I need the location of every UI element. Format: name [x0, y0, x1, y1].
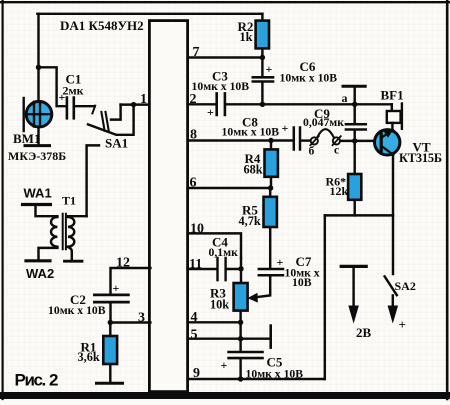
wire c to transistor base [340, 140, 380, 142]
svg-text:+: + [207, 105, 214, 119]
wire WA1 to T1 [36, 206, 58, 216]
right vertical rail [324, 215, 326, 379]
capacitor C8 plates [294, 128, 300, 150]
op-amp IC DA1 body [149, 21, 187, 392]
junction pin5 [238, 336, 243, 341]
capacitor C5 plates [229, 352, 263, 358]
svg-text:3: 3 [138, 311, 145, 326]
junction C4 R3 [238, 266, 243, 271]
wire T1 right winding top [68, 215, 87, 217]
connector socket b [311, 137, 318, 144]
wire pin 12 row [111, 268, 151, 293]
transistor VT body [375, 130, 400, 155]
pin 5 terminal bar [269, 326, 272, 348]
svg-text:WA2: WA2 [26, 266, 54, 281]
junction C2 R1 [108, 320, 113, 325]
svg-text:12k: 12k [330, 184, 349, 198]
resistor R1 leads [109, 323, 111, 382]
capacitor C2 plates [94, 295, 128, 302]
svg-text:8: 8 [190, 128, 197, 143]
junction C5 pin9 [238, 376, 243, 381]
BM1 bottom terminal bar [25, 144, 50, 147]
svg-text:10мк x 10В: 10мк x 10В [48, 304, 106, 317]
jumper arc b to c [318, 129, 334, 136]
wire 2B stem [352, 268, 354, 307]
resistor R6 body [348, 174, 361, 200]
capacitor C3 plates [217, 93, 225, 115]
capacitor C4 plates [218, 258, 226, 280]
junction R2 bottom [260, 55, 265, 60]
svg-text:2В: 2В [356, 325, 372, 340]
svg-text:SA2: SA2 [395, 279, 416, 293]
SA2 arrowhead [388, 306, 397, 322]
transformer T1 core lines [63, 214, 66, 250]
transistor VT collector arrowhead [385, 130, 393, 137]
svg-text:2мк: 2мк [63, 84, 84, 98]
svg-text:10мк x 10В: 10мк x 10В [192, 80, 250, 93]
antenna WA1 bar [23, 203, 51, 206]
wire C5 bottom lead [239, 359, 241, 379]
microphone BM1 body [26, 101, 52, 127]
resistor R5 leads [269, 188, 271, 268]
wire pin 5 row [188, 337, 271, 339]
frame left border [1, 1, 3, 399]
svg-text:+: + [113, 281, 120, 295]
svg-text:б: б [309, 145, 315, 158]
connector slash b [310, 136, 318, 145]
svg-text:5: 5 [191, 328, 198, 343]
headphone BF1 box [387, 111, 401, 123]
svg-text:6: 6 [190, 176, 197, 191]
wire C7 bottom to wiper [256, 277, 271, 298]
capacitor C7 plates [259, 269, 283, 275]
wire BM1 bottom lead [37, 127, 39, 144]
svg-text:T1: T1 [62, 194, 76, 208]
capacitor C1 plates [67, 98, 74, 119]
wire SA2 stem [392, 295, 394, 307]
junction C6 bottom [260, 102, 265, 107]
antenna WA2 bar [26, 259, 50, 262]
R1 bottom terminal bar [97, 382, 123, 385]
svg-text:+: + [221, 358, 228, 372]
wire pin 9 row [188, 378, 325, 380]
svg-text:+: + [277, 255, 284, 269]
svg-text:КТ315Б: КТ315Б [399, 151, 442, 165]
wire R6 bottom lead [353, 200, 355, 216]
switch SA1 lever [88, 105, 134, 135]
svg-text:МКЭ-378Б: МКЭ-378Б [8, 149, 66, 163]
svg-text:2: 2 [49, 370, 58, 389]
svg-text:12: 12 [116, 256, 130, 271]
wire pin 3 row [110, 321, 150, 323]
resistor R2 leads [261, 48, 263, 76]
wire pin 6 row [188, 187, 271, 189]
svg-text:+: + [399, 317, 406, 332]
svg-text:10В: 10В [292, 276, 312, 289]
resistor R5 body [264, 197, 277, 227]
svg-text:Рис.: Рис. [15, 370, 46, 389]
transformer T1 left winding [51, 217, 57, 247]
svg-text:3,6k: 3,6k [78, 350, 100, 364]
svg-text:SA1: SA1 [105, 136, 128, 151]
wire pin 11 [188, 268, 217, 270]
wire C8 to connector [301, 139, 310, 141]
wire emitter row to right rail [325, 214, 393, 216]
junction top-left [36, 65, 41, 70]
junction R4 R5 [268, 185, 273, 190]
microphone BM1 inner horizontal line [27, 113, 52, 115]
R3 wiper arrowhead [249, 294, 258, 302]
transformer T1 right winding [68, 217, 74, 247]
svg-text:+: + [59, 90, 66, 104]
wire C4 to junction [227, 258, 241, 283]
junction SA1 pin1 [131, 102, 136, 107]
wire SA1 pole to T1 [87, 145, 99, 216]
wire BF1 to collector [391, 123, 393, 130]
svg-text:10мк x 10В: 10мк x 10В [222, 126, 280, 139]
wire C2 bottom lead [109, 303, 111, 322]
svg-text:DA1 К548УН2: DA1 К548УН2 [60, 18, 144, 33]
wire emitter down to SA2 [392, 155, 394, 275]
2B arrowhead [349, 306, 358, 322]
svg-text:WA1: WA1 [24, 186, 52, 201]
resistor R4 leads [270, 141, 272, 189]
T1 right bottom terminal bar [65, 260, 83, 263]
svg-text:9: 9 [193, 366, 200, 381]
svg-text:+: + [266, 62, 273, 76]
junction R3 pin4 [238, 320, 243, 325]
svg-text:7: 7 [193, 45, 200, 60]
wire pin 8 row [188, 139, 293, 141]
switch SA1 blade lines [101, 112, 108, 131]
wire T1 left winding bottom to WA2 [39, 248, 58, 260]
svg-text:68k: 68k [244, 163, 263, 177]
wire T1 right winding bottom lead [68, 247, 72, 260]
wire C1 to SA1 [75, 105, 94, 107]
switch SA1 upper contact hook [111, 105, 121, 120]
junction node a rail [352, 102, 357, 107]
svg-text:0,047мк: 0,047мк [303, 116, 344, 129]
svg-text:4,7k: 4,7k [239, 214, 261, 228]
svg-text:11: 11 [189, 257, 202, 272]
wire R6 top lead [353, 141, 355, 174]
wire R3 bottom lead [239, 311, 241, 351]
resistor R2 body [256, 21, 269, 49]
frame right border [446, 1, 449, 399]
svg-text:0,1мк: 0,1мк [209, 246, 239, 259]
wire C6 bottom lead [261, 83, 263, 105]
svg-text:1: 1 [140, 92, 147, 107]
wire top-left branch to C1 [39, 67, 65, 106]
frame bottom border [1, 392, 449, 399]
SA1 contact tick [92, 106, 95, 114]
node a terminal bar [343, 85, 365, 88]
svg-text:2: 2 [190, 92, 197, 107]
svg-text:10k: 10k [210, 298, 229, 312]
svg-text:+: + [282, 121, 289, 135]
wire pin 4 row [188, 321, 241, 323]
connector slash c [333, 136, 341, 145]
wire top rail horizontal [37, 13, 262, 15]
wire pin 2 rail [188, 103, 392, 105]
connector socket c [333, 137, 340, 144]
svg-text:1k: 1k [240, 30, 253, 44]
resistor R1 body [103, 336, 117, 364]
wire C9 bottom lead [353, 131, 355, 141]
headphone BF1 right bar [401, 104, 403, 129]
microphone BM1 inner plates [34, 102, 40, 127]
svg-text:4: 4 [191, 310, 198, 325]
wire R2 top lead [261, 14, 263, 21]
switch SA2 lever [385, 276, 397, 295]
transistor VT emitter diagonal [382, 146, 394, 155]
wire pin1 to IC [121, 103, 151, 105]
battery 2B terminal bar [341, 265, 366, 268]
transistor VT collector diagonal [382, 130, 393, 138]
svg-text:BF1: BF1 [381, 88, 404, 103]
wire pin 7 [188, 56, 263, 58]
wire pin 10 [188, 233, 241, 257]
capacitor C9 plates [346, 124, 366, 129]
frame top border [1, 1, 449, 3]
headphone BF1 feed wire [391, 104, 393, 111]
svg-text:10мк x 10В: 10мк x 10В [246, 368, 304, 381]
svg-text:10: 10 [190, 222, 204, 237]
junction R4 top [268, 138, 273, 143]
junction C9 bottom [352, 138, 357, 143]
capacitor C6 plates [253, 77, 273, 81]
microphone BM1 left electrode bar [23, 98, 25, 131]
svg-text:с: с [334, 144, 339, 157]
transistor VT base bar [380, 134, 383, 151]
wire node a stem [353, 88, 355, 124]
svg-text:а: а [342, 91, 348, 105]
wire top-left vertical [37, 14, 39, 101]
resistor R3 body [234, 283, 248, 311]
svg-text:10мк x 10В: 10мк x 10В [280, 72, 338, 85]
svg-text:ВМ1: ВМ1 [13, 131, 40, 146]
resistor R4 body [265, 149, 278, 176]
